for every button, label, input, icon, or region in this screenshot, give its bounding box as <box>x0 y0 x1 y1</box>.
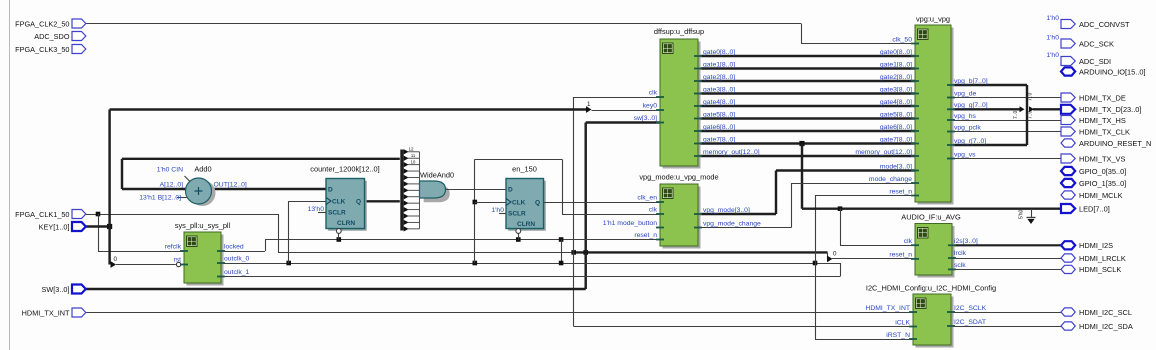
wire dffsup clk vertical x573.7 down to iCLK <box>573 97 575 327</box>
svg-text:outclk_1: outclk_1 <box>224 269 250 276</box>
bus splitter bar for counter Q <box>400 150 403 231</box>
counter CLRN bubble and stub <box>336 229 341 234</box>
bus vpg_b to merge <box>951 84 1027 86</box>
svg-text:LED[7..0]: LED[7..0] <box>1079 204 1110 213</box>
bus merge arrow vpg_g <box>1020 106 1025 112</box>
svg-text:clk: clk <box>649 207 658 214</box>
output pin HDMI_I2C_SCL <box>1061 308 1075 316</box>
svg-text:gate5[8..0]: gate5[8..0] <box>703 111 735 118</box>
bus adder OUT to counter D <box>211 188 327 190</box>
svg-text:HDMI_TX_INT: HDMI_TX_INT <box>865 305 910 312</box>
svg-text:7..0: 7..0 <box>1028 110 1034 119</box>
en_150 CLRN bubble and stub <box>516 229 521 234</box>
svg-text:HDMI_I2C_SCL: HDMI_I2C_SCL <box>1079 308 1132 317</box>
junction en150 clk <box>473 200 478 205</box>
wire FPGA_CLK2_50 to vpg clk_50 <box>86 23 801 25</box>
wire vpg_hs to HDMI_TX_HS <box>951 120 1062 122</box>
svg-text:HDMI_MCLK: HDMI_MCLK <box>1079 191 1123 200</box>
svg-text:memory_out[12..0]: memory_out[12..0] <box>703 149 760 156</box>
svg-text:lrclk: lrclk <box>954 250 967 257</box>
adder B stub <box>177 197 187 199</box>
svg-text:reset_n: reset_n <box>634 232 657 239</box>
svg-text:vpg_hs: vpg_hs <box>954 113 977 120</box>
wire counter CLK feed x288.7 <box>288 201 290 263</box>
and gate WideAnd0 <box>424 185 450 202</box>
wire row252 jog down to AUDIO_IF reset_n <box>827 252 829 259</box>
svg-text:sw[3..0]: sw[3..0] <box>634 115 658 122</box>
splitter fanout wires <box>404 149 420 231</box>
svg-text:vpg_g[7..0]: vpg_g[7..0] <box>954 102 988 109</box>
svg-text:CLRN: CLRN <box>517 221 535 228</box>
svg-text:HDMI_I2S: HDMI_I2S <box>1079 241 1113 250</box>
input pin SW[3..0] <box>72 285 86 294</box>
bus KEY[1] top run to key0 <box>110 108 586 110</box>
svg-text:reset_n: reset_n <box>889 252 912 259</box>
svg-text:dffsup:u_dffsup: dffsup:u_dffsup <box>654 27 704 36</box>
svg-text:sys_pll:u_sys_pll: sys_pll:u_sys_pll <box>175 221 231 230</box>
output pin HDMI_I2C_SDA <box>1061 322 1075 330</box>
wire outclk_0 row y263 <box>222 263 840 265</box>
bus vpg_mode[3..0] to vpg mode input <box>698 213 776 215</box>
input pin HDMI_TX_INT <box>72 308 86 317</box>
wire AUDIO_IF clk feed <box>840 209 842 246</box>
output pin HDMI_TX_D[23..0] <box>1061 105 1075 114</box>
svg-text:vpg_vs: vpg_vs <box>954 151 976 158</box>
bus vpg_g to merge <box>951 108 1020 110</box>
output pin ADC_SCK <box>1061 39 1075 48</box>
svg-text:1'h0: 1'h0 <box>1046 52 1059 59</box>
svg-text:gate3[8..0]: gate3[8..0] <box>880 86 912 93</box>
svg-text:locked: locked <box>224 244 244 251</box>
svg-text:clk: clk <box>649 90 658 97</box>
svg-text:gate4[8..0]: gate4[8..0] <box>703 99 735 106</box>
svg-text:key0: key0 <box>643 103 658 110</box>
svg-text:HDMI_SCLK: HDMI_SCLK <box>1079 265 1121 274</box>
input pin FPGA_CLK2_50 <box>72 19 86 28</box>
wire vpg_mode_change to vpg mode_change <box>698 227 792 229</box>
svg-text:vpg_r[7..0]: vpg_r[7..0] <box>954 138 986 145</box>
junction counter CLRN on reset row <box>337 237 342 242</box>
junction dffsup clk tap on row 252.4 <box>571 250 576 255</box>
svg-text:HDMI_TX_DE: HDMI_TX_DE <box>1079 93 1126 102</box>
svg-text:gate2[8..0]: gate2[8..0] <box>880 74 912 81</box>
svg-text:HDMI_TX_VS: HDMI_TX_VS <box>1079 154 1125 163</box>
adder Add0 <box>190 180 216 206</box>
output pin HDMI_TX_DE <box>1061 93 1075 102</box>
svg-text:5'h0: 5'h0 <box>1019 209 1025 219</box>
svg-text:CLK: CLK <box>512 200 526 207</box>
bus gate7[8..0] dffsup to vpg <box>698 142 915 144</box>
output pin ARDUINO_RESET_N <box>1061 139 1075 147</box>
module vpg_mode:u_vpg_mode <box>663 187 701 249</box>
input pin KEY[1..0] <box>72 222 86 231</box>
junction en150 clk tap <box>473 261 478 266</box>
module vpg:u_vpg <box>918 28 954 205</box>
wire FPGA_CLK1_50 horizontal <box>86 214 278 216</box>
bus LED wire y208.7 <box>802 207 1061 209</box>
module AUDIO_IF:u_AVG <box>918 226 955 278</box>
wire top run y159.3 to V562 <box>475 159 562 161</box>
register counter_1200k <box>328 181 367 231</box>
svg-text:1: 1 <box>587 101 591 108</box>
svg-text:ADC_CONVST: ADC_CONVST <box>1079 20 1130 29</box>
svg-text:1'h0: 1'h0 <box>1046 35 1059 42</box>
svg-text:refclk: refclk <box>165 244 182 251</box>
output pin LED[7..0] <box>1061 204 1075 213</box>
bus counter Q to splitter <box>365 200 400 202</box>
svg-text:gate5[8..0]: gate5[8..0] <box>880 111 912 118</box>
wire vpg_pclk to HDMI_TX_CLK <box>951 131 1062 133</box>
bus tap arrow 1 KEY bit1 <box>586 106 592 113</box>
bus AUDIO i2s to HDMI_I2S <box>952 244 1061 246</box>
register en_150 <box>508 181 546 231</box>
wire rst into sys_pll <box>116 264 176 266</box>
svg-text:vpg_pclk: vpg_pclk <box>954 124 981 131</box>
svg-text:reset_n: reset_n <box>889 188 912 195</box>
svg-text:memory_out[12..0]: memory_out[12..0] <box>855 149 912 156</box>
svg-text:FPGA_CLK3_50: FPGA_CLK3_50 <box>15 45 69 54</box>
module I2C_HDMI_Config:u_I2C_HDMI_Config <box>916 297 954 348</box>
svg-text:clk_en: clk_en <box>637 195 657 202</box>
junction gate7 branch <box>799 141 804 146</box>
wire vpg reset_n <box>815 195 915 197</box>
bus row 252.4 thick segment to tap <box>574 251 828 253</box>
wire V561 down to row 263 <box>561 240 563 264</box>
svg-text:gate0[8..0]: gate0[8..0] <box>703 49 735 56</box>
svg-text:SCLR: SCLR <box>328 210 346 217</box>
svg-text:SCLR: SCLR <box>508 211 526 218</box>
svg-text:D: D <box>508 187 513 194</box>
wire I2C_SCLK to pin <box>951 312 1061 314</box>
wire HDMI_TX_INT to I2C block <box>86 312 913 314</box>
svg-text:I2C_SDAT: I2C_SDAT <box>954 319 986 326</box>
svg-text:vpg_mode[3..0]: vpg_mode[3..0] <box>703 207 750 214</box>
output pin HDMI_LRCLK <box>1061 254 1075 262</box>
bus gate0[8..0] dffsup to vpg <box>698 55 915 57</box>
svg-text:OUT[12..0]: OUT[12..0] <box>214 182 247 189</box>
bus gate3[8..0] dffsup to vpg <box>698 92 915 94</box>
svg-text:vpg_de: vpg_de <box>954 90 977 97</box>
junction V561 lower <box>559 261 564 266</box>
wire adder feedback left drop <box>121 159 123 189</box>
svg-text:HDMI_TX_D[23..0]: HDMI_TX_D[23..0] <box>1079 105 1141 114</box>
wire adder feedback loop top <box>122 158 400 160</box>
svg-text:ARDUINO_RESET_N: ARDUINO_RESET_N <box>1079 139 1151 148</box>
module dffsup:u_dffsup <box>663 42 701 169</box>
svg-text:Q: Q <box>356 199 361 206</box>
output pin ADC_CONVST <box>1061 20 1075 29</box>
output pin GPIO_0[35..0] <box>1061 167 1075 175</box>
bus KEY vertical x109.6 <box>108 110 110 265</box>
svg-text:mode[3..0]: mode[3..0] <box>880 163 912 170</box>
svg-text:11: 11 <box>411 153 416 158</box>
bus gate6[8..0] dffsup to vpg <box>698 130 915 132</box>
svg-text:mode_change: mode_change <box>869 176 912 183</box>
wire vpg_de to HDMI_TX_DE <box>951 97 1062 99</box>
svg-text:i2s[3..0]: i2s[3..0] <box>954 238 978 245</box>
wire reset row y239.5 to vpg_mode reset_n <box>265 239 660 241</box>
bus gate4[8..0] dffsup to vpg <box>698 105 915 107</box>
output pin HDMI_I2S <box>1061 241 1075 249</box>
output pin ADC_SDI <box>1061 57 1075 66</box>
page border left <box>9 0 11 350</box>
svg-text:1'h0 CIN: 1'h0 CIN <box>157 167 183 174</box>
svg-text:7..0: 7..0 <box>1028 92 1034 101</box>
svg-text:HDMI_TX_CLK: HDMI_TX_CLK <box>1079 127 1130 136</box>
junction KEY bus <box>107 224 112 229</box>
wire FPGA_CLK1_50 drop x278 to row 252.4 <box>278 214 280 252</box>
svg-text:1'h1 mode_button: 1'h1 mode_button <box>603 220 657 227</box>
svg-text:ARDUINO_IO[15..0]: ARDUINO_IO[15..0] <box>1079 67 1146 76</box>
svg-text:FPGA_CLK2_50: FPGA_CLK2_50 <box>15 19 69 28</box>
svg-text:sclk: sclk <box>954 262 966 269</box>
svg-text:SW[3..0]: SW[3..0] <box>42 285 70 294</box>
wire en_150 Q to vpg_mode clk_en <box>544 202 661 204</box>
wire I2C_SDAT to pin <box>951 326 1061 328</box>
output pin HDMI_MCLK <box>1061 191 1075 199</box>
svg-text:clk: clk <box>904 238 913 245</box>
bus rgb merge vertical <box>1026 85 1028 145</box>
svg-text:HDMI_I2C_SDA: HDMI_I2C_SDA <box>1079 322 1133 331</box>
svg-text:WideAnd0: WideAnd0 <box>420 171 454 180</box>
svg-text:gate3[8..0]: gate3[8..0] <box>703 86 735 93</box>
svg-text:I2C_SCLK: I2C_SCLK <box>954 305 987 312</box>
wire AUDIO lrclk to HDMI_LRCLK <box>952 258 1061 260</box>
wire refclk drop x98 <box>98 214 100 251</box>
bus gate2[8..0] dffsup to vpg <box>698 80 915 82</box>
output pin HDMI_TX_CLK <box>1061 127 1075 136</box>
svg-text:outclk_0: outclk_0 <box>224 256 250 263</box>
svg-text:HDMI_LRCLK: HDMI_LRCLK <box>1079 254 1126 263</box>
junction reset vertical x815 <box>813 261 818 266</box>
bus HDMI_TX_D output with arrow <box>1029 106 1034 112</box>
svg-text:vpg_mode_change: vpg_mode_change <box>703 220 761 227</box>
svg-text:vpg:u_vpg: vpg:u_vpg <box>916 15 950 24</box>
svg-text:rst: rst <box>173 257 181 264</box>
junction AUDIO clk tap on LED wire <box>838 206 843 211</box>
svg-text:1'h0: 1'h0 <box>1046 15 1059 22</box>
svg-text:gate2[8..0]: gate2[8..0] <box>703 74 735 81</box>
wire key0 into dffsup <box>592 110 661 112</box>
svg-text:I2C_HDMI_Config:u_I2C_HDMI_Con: I2C_HDMI_Config:u_I2C_HDMI_Config <box>866 284 996 293</box>
bus KEY[1..0] from pin <box>86 225 110 227</box>
adder CIN stub <box>185 176 191 182</box>
bus gate5[8..0] dffsup to vpg <box>698 117 915 119</box>
svg-text:gate7[8..0]: gate7[8..0] <box>703 136 735 143</box>
bus memory_out[12..0] dffsup to vpg <box>698 155 915 157</box>
junction en_150 CLRN on reset row <box>516 237 521 242</box>
wire locked to reset row <box>222 251 265 253</box>
svg-text:AUDIO_IF:u_AVG: AUDIO_IF:u_AVG <box>901 213 961 222</box>
bus tap arrow 0 to AUDIO_IF reset_n <box>827 256 833 263</box>
svg-text:counter_1200k[12..0]: counter_1200k[12..0] <box>310 165 379 174</box>
svg-text:Add0: Add0 <box>194 165 211 174</box>
svg-text:vpg_mode:u_vpg_mode: vpg_mode:u_vpg_mode <box>639 173 718 182</box>
wire link row263 to outclk_1 at x840 <box>840 263 842 277</box>
svg-text:13'h1 B[12..0]: 13'h1 B[12..0] <box>139 195 181 202</box>
svg-text:ADC_SDI: ADC_SDI <box>1079 57 1111 66</box>
wire vpg_mode clk feed <box>562 214 660 216</box>
output pin ARDUINO_IO[15..0] <box>1061 67 1075 75</box>
svg-text:CLK: CLK <box>332 199 346 206</box>
pll sys_pll:u_sys_pll <box>187 235 224 286</box>
svg-text:ADC_SCK: ADC_SCK <box>1079 39 1114 48</box>
svg-text:en_150: en_150 <box>512 165 537 174</box>
svg-text:HDMI_TX_INT: HDMI_TX_INT <box>22 308 70 317</box>
output pin HDMI_SCLK <box>1061 265 1075 273</box>
svg-text:gate7[8..0]: gate7[8..0] <box>880 136 912 143</box>
wire WideAnd0 output to en_150 D <box>446 189 507 191</box>
svg-text:gate4[8..0]: gate4[8..0] <box>880 99 912 106</box>
junction SW crossing on row 252.4 <box>583 250 588 255</box>
svg-text:clk_50: clk_50 <box>892 36 912 43</box>
bus tap arrow 0 KEY bit0 to rst <box>111 261 117 268</box>
wire adder A input <box>122 188 186 190</box>
ground symbol with 5'h0 on LED bus <box>1031 209 1033 217</box>
svg-text:gate1[8..0]: gate1[8..0] <box>880 61 912 68</box>
input pin FPGA_CLK1_50 <box>72 210 86 219</box>
svg-text:KEY[1..0]: KEY[1..0] <box>39 222 70 231</box>
output pin HDMI_TX_HS <box>1061 116 1075 125</box>
inverter bubble on rst <box>176 262 180 266</box>
input pin FPGA_CLK3_50 <box>72 45 86 54</box>
wire reset vertical x815 <box>815 196 817 340</box>
svg-text:iRST_N: iRST_N <box>886 332 910 339</box>
bus SW[3..0] from pin to dffsup <box>86 288 586 290</box>
svg-text:gate0[8..0]: gate0[8..0] <box>880 49 912 56</box>
svg-text:CLRN: CLRN <box>337 220 355 227</box>
svg-text:D: D <box>328 187 333 194</box>
svg-text:10: 10 <box>411 159 416 164</box>
splitter input vertical line <box>419 152 421 229</box>
svg-text:12: 12 <box>408 147 414 152</box>
svg-text:gate1[8..0]: gate1[8..0] <box>703 61 735 68</box>
wire vpg_vs to HDMI_TX_VS <box>951 158 1062 160</box>
wire outclk_1 row <box>222 276 840 278</box>
junction counter clk tap <box>286 261 291 266</box>
svg-text:HDMI_TX_HS: HDMI_TX_HS <box>1079 116 1126 125</box>
wire iCLK feed to I2C block <box>574 326 913 328</box>
input pin ADC_SDO <box>72 32 86 41</box>
svg-text:ADC_SDO: ADC_SDO <box>34 32 70 41</box>
bus gate1[8..0] dffsup to vpg <box>698 67 915 69</box>
junction on FPGA_CLK1_50 at x98 <box>96 212 101 217</box>
svg-text:GPIO_0[35..0]: GPIO_0[35..0] <box>1079 167 1126 176</box>
svg-text:iCLK: iCLK <box>895 319 910 326</box>
svg-text:gate6[8..0]: gate6[8..0] <box>703 124 735 131</box>
output pin HDMI_TX_VS <box>1061 154 1075 163</box>
wire I2C iRST_N <box>815 339 913 341</box>
wire en_150 CLK feed x474.8 <box>474 159 476 263</box>
bus gate7 branch down x802 <box>801 144 803 209</box>
junction V561 on reset row <box>559 237 564 242</box>
svg-text:FPGA_CLK1_50: FPGA_CLK1_50 <box>15 210 69 219</box>
svg-text:GPIO_1[35..0]: GPIO_1[35..0] <box>1079 179 1126 188</box>
svg-text:gate6[8..0]: gate6[8..0] <box>880 124 912 131</box>
svg-text:vpg_b[7..0]: vpg_b[7..0] <box>954 78 988 85</box>
wire AUDIO sclk to HDMI_SCLK <box>952 269 1061 271</box>
svg-text:Q: Q <box>535 200 540 207</box>
svg-text:7..0: 7..0 <box>1013 110 1019 119</box>
wire outclk_1 stub <box>221 276 222 278</box>
svg-text:0: 0 <box>114 256 118 263</box>
output pin GPIO_1[35..0] <box>1061 179 1075 187</box>
bus vpg_r to merge <box>951 144 1027 146</box>
svg-text:0: 0 <box>833 251 837 258</box>
svg-text:A[12..0]: A[12..0] <box>160 182 184 189</box>
